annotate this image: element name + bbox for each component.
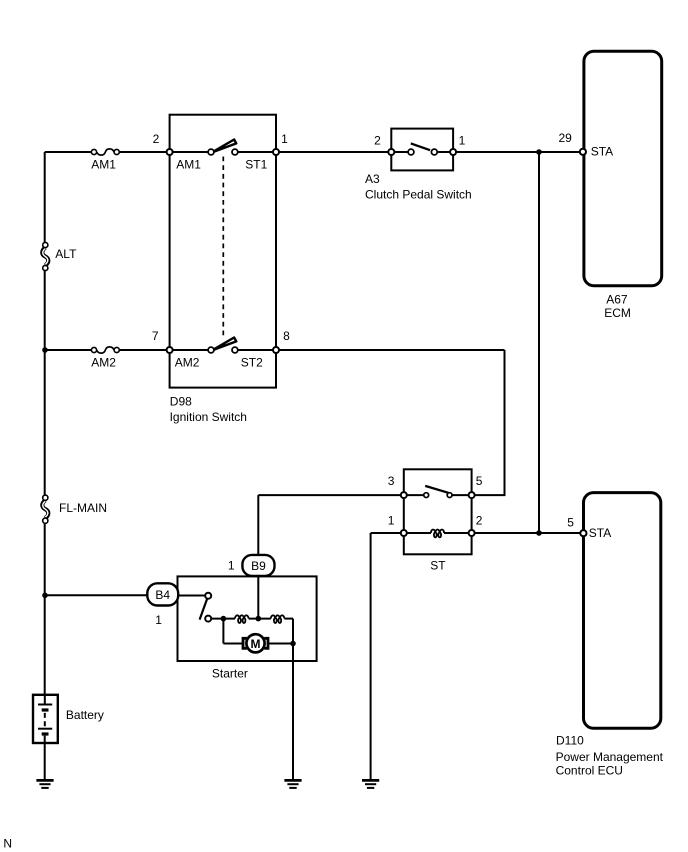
svg-text:AM1: AM1 [176,157,201,171]
svg-text:M: M [251,637,261,651]
svg-text:ST: ST [430,558,446,572]
svg-text:Battery: Battery [66,708,104,722]
svg-text:2: 2 [374,134,381,148]
svg-text:ECM: ECM [604,306,631,320]
svg-text:ST1: ST1 [245,157,267,171]
svg-text:FL-MAIN: FL-MAIN [59,501,107,515]
svg-text:B9: B9 [251,559,266,573]
svg-text:Power Management: Power Management [556,750,664,764]
svg-text:8: 8 [283,329,290,343]
svg-text:A67: A67 [606,292,628,306]
svg-text:3: 3 [388,474,395,488]
svg-text:Control ECU: Control ECU [556,764,623,778]
svg-text:5: 5 [476,474,483,488]
svg-text:2: 2 [476,514,483,528]
svg-text:1: 1 [155,613,162,627]
svg-text:AM1: AM1 [91,157,116,171]
svg-text:Ignition Switch: Ignition Switch [170,410,247,424]
svg-text:ALT: ALT [55,247,77,261]
svg-text:A3: A3 [365,172,380,186]
svg-text:1: 1 [459,134,466,148]
svg-text:Starter: Starter [212,667,248,681]
svg-text:1: 1 [228,559,235,573]
svg-text:D98: D98 [170,394,192,408]
svg-text:2: 2 [153,132,160,146]
svg-text:STA: STA [591,144,613,158]
svg-text:AM2: AM2 [175,355,200,369]
svg-text:Clutch Pedal Switch: Clutch Pedal Switch [365,187,472,201]
svg-text:29: 29 [559,131,573,145]
svg-text:ST2: ST2 [241,355,263,369]
svg-text:7: 7 [152,329,159,343]
svg-text:1: 1 [281,132,288,146]
svg-text:D110: D110 [556,733,584,747]
svg-text:STA: STA [589,526,611,540]
svg-text:B4: B4 [155,588,170,602]
svg-text:5: 5 [567,515,574,529]
svg-text:N: N [3,837,12,851]
svg-text:1: 1 [388,514,395,528]
svg-text:AM2: AM2 [91,355,116,369]
